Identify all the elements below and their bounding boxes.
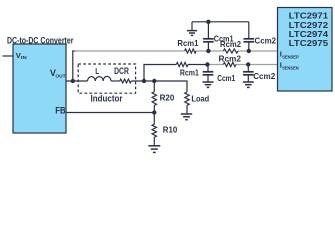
- svg-text:L: L: [95, 66, 99, 76]
- svg-text:Rcm1: Rcm1: [180, 67, 199, 77]
- svg-text:IN: IN: [21, 55, 27, 60]
- svg-text:Rcm2: Rcm2: [220, 39, 241, 49]
- svg-text:OUT: OUT: [55, 74, 65, 79]
- svg-text:DC-to-DC Converter: DC-to-DC Converter: [7, 35, 74, 45]
- svg-text:R20: R20: [160, 93, 175, 103]
- svg-text:R10: R10: [163, 125, 178, 135]
- svg-text:SENSEN: SENSEN: [282, 65, 299, 70]
- svg-text:Ccm2: Ccm2: [255, 36, 277, 46]
- svg-text:Rcm2: Rcm2: [219, 54, 242, 64]
- svg-text:LTC2975: LTC2975: [289, 38, 329, 48]
- svg-text:Inductor: Inductor: [91, 94, 123, 104]
- svg-text:FB: FB: [55, 106, 66, 116]
- svg-text:Ccm2: Ccm2: [253, 71, 275, 81]
- svg-text:SENSEP: SENSEP: [282, 54, 299, 59]
- svg-text:Load: Load: [191, 94, 209, 104]
- svg-text:Rcm1: Rcm1: [177, 38, 198, 48]
- svg-text:DCR: DCR: [114, 66, 129, 76]
- svg-text:Ccm1: Ccm1: [217, 73, 235, 83]
